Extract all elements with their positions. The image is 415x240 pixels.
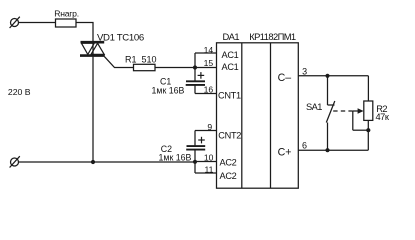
wire pin9 to C2	[194, 131, 196, 147]
svg-text:AC2: AC2	[220, 157, 237, 167]
wire bottom bus	[19, 161, 196, 163]
svg-text:14: 14	[204, 45, 214, 55]
wire Rнагр to triac top	[76, 23, 93, 42]
op-amp U1 / IC DA1 КР1182ПМ1 box	[217, 31, 299, 188]
svg-text:16: 16	[204, 85, 214, 95]
wire top terminal to Rнагр	[19, 22, 56, 24]
pin 9 stub	[195, 122, 217, 132]
svg-text:AC2: AC2	[220, 171, 237, 181]
node junction C2 / bus	[193, 160, 197, 164]
svg-text:C–: C–	[278, 72, 292, 84]
svg-text:R1 510: R1 510	[125, 55, 157, 65]
pin 16 stub	[195, 85, 217, 95]
terminal X2 bottom-left	[10, 156, 20, 167]
svg-text:C+: C+	[278, 146, 292, 158]
resistor Rнагр	[54, 9, 79, 27]
wire triac gate to R1	[104, 57, 133, 68]
pin 3 stub and top right wire	[298, 66, 368, 76]
svg-text:SA1: SA1	[306, 102, 322, 112]
svg-text:3: 3	[302, 66, 307, 76]
svg-text:1мк 16В: 1мк 16В	[159, 153, 192, 163]
svg-text:AC1: AC1	[222, 62, 239, 72]
svg-text:11: 11	[204, 165, 213, 175]
svg-text:47к: 47к	[376, 112, 390, 122]
svg-text:9: 9	[207, 122, 212, 132]
pin 11 stub	[195, 165, 217, 175]
resistor R1 510	[125, 55, 157, 71]
svg-text:DA1КР1182ПМ1: DA1КР1182ПМ1	[223, 31, 296, 42]
svg-text:CNT1: CNT1	[218, 90, 241, 100]
switch SA1	[306, 76, 335, 150]
svg-text:VD1 TC106: VD1 TC106	[97, 32, 144, 43]
pin 14 stub	[195, 45, 217, 55]
node junction SA1 top	[325, 74, 329, 78]
wire R1 to pin15 junction	[155, 67, 195, 69]
node junction SA1 bottom	[325, 148, 329, 152]
node junction at pin15	[193, 65, 197, 69]
R2 wiper arrow	[353, 108, 369, 130]
svg-text:CNT2: CNT2	[218, 131, 241, 141]
svg-text:AC1: AC1	[222, 50, 239, 60]
svg-text:Rнагр.: Rнагр.	[54, 9, 79, 19]
pin 15 stub	[195, 58, 217, 68]
dashed mechanical link SA1 to R2	[333, 110, 353, 112]
pin 6 stub and bottom right wire	[298, 140, 368, 150]
resistor R2 47к (potentiometer)	[364, 76, 390, 150]
svg-text:1мк 16В: 1мк 16В	[152, 85, 185, 95]
node junction wiper / R2 bottom lead	[366, 128, 370, 132]
node junction triac / bus	[91, 160, 95, 164]
terminal X1 top-left	[10, 17, 20, 28]
svg-text:15: 15	[204, 58, 214, 68]
wire triac bottom to bus	[92, 57, 94, 162]
triac VD1 TC106	[80, 32, 144, 55]
wire vertical pin14 to C1	[194, 53, 196, 81]
pin 10 stub	[195, 153, 217, 163]
capacitor C2 1мк 16В	[159, 137, 206, 173]
capacitor C1 1мк 16В	[152, 72, 206, 95]
svg-text:6: 6	[302, 140, 307, 150]
svg-text:220 В: 220 В	[8, 87, 31, 97]
svg-text:10: 10	[204, 153, 214, 163]
